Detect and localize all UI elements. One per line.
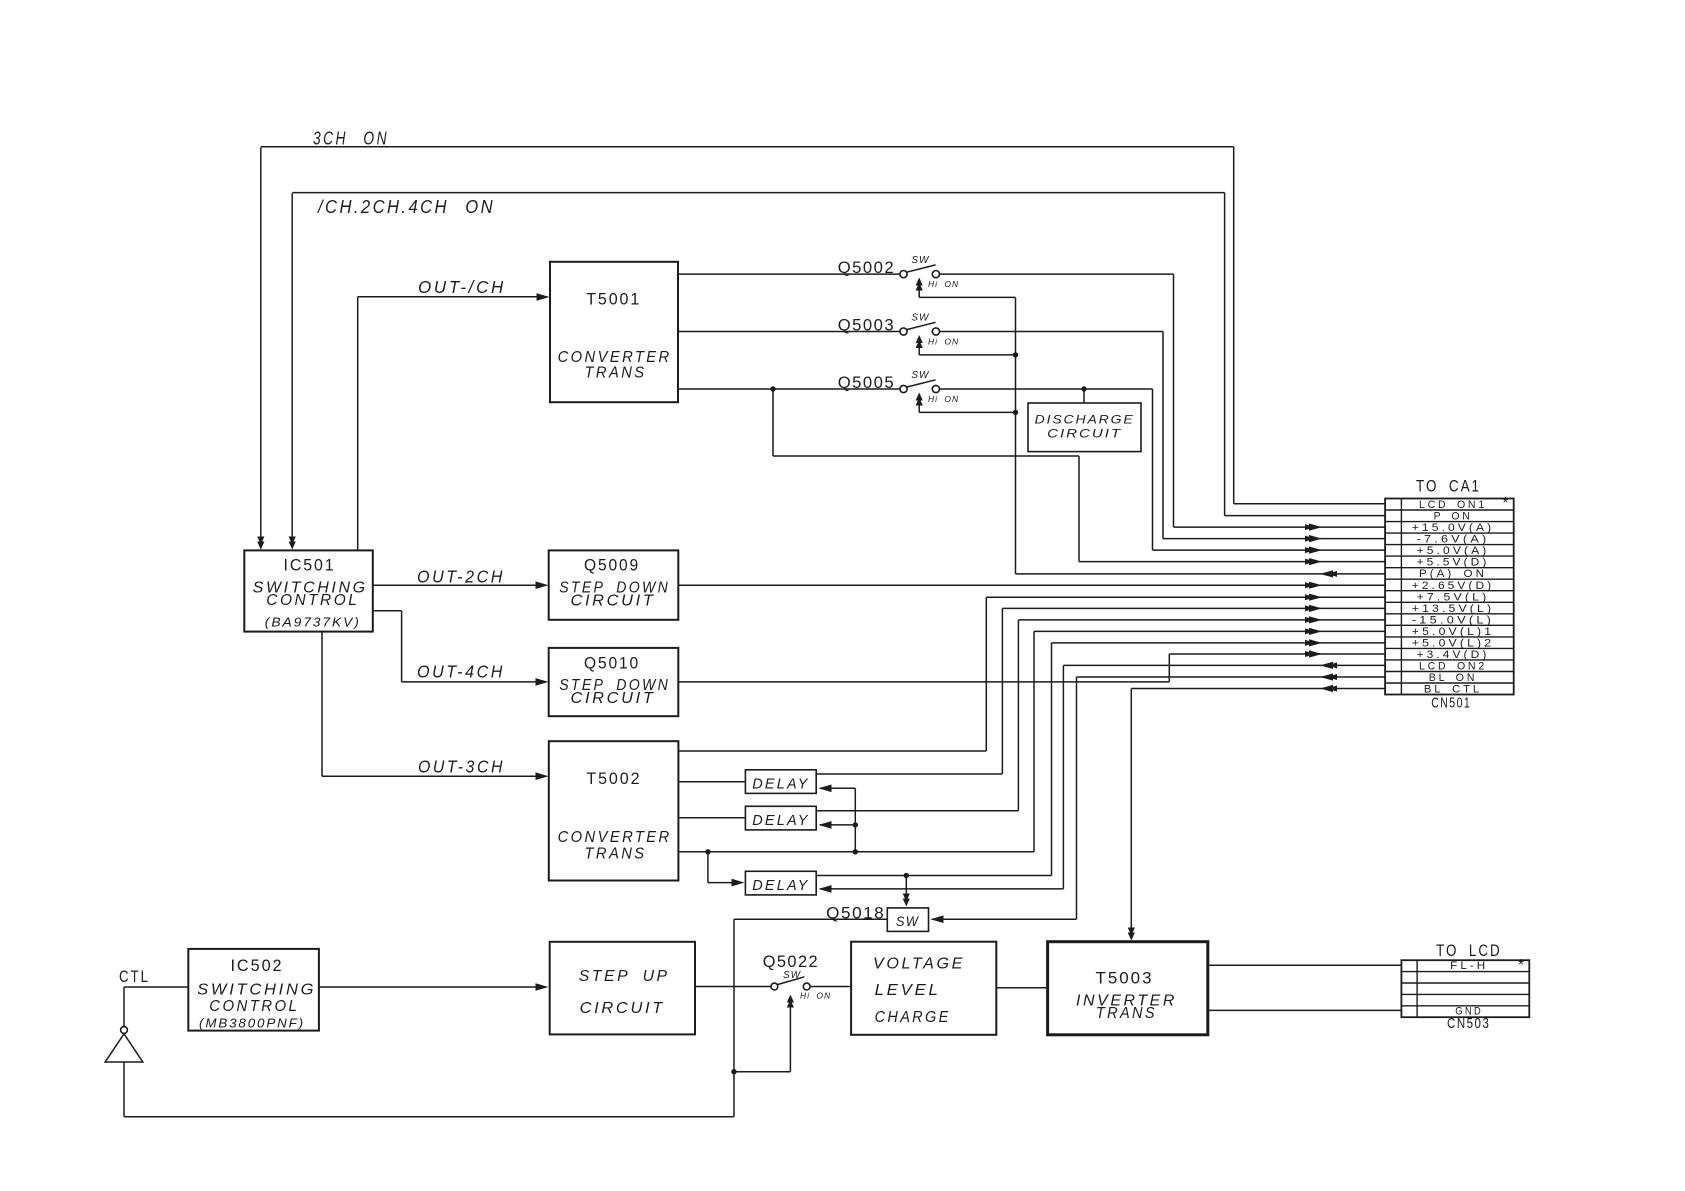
wire net OUT-3CH to T5002 bbox=[322, 775, 546, 777]
svg-text:+5.0V(A): +5.0V(A) bbox=[1417, 545, 1490, 557]
svg-text:BL CTL: BL CTL bbox=[1424, 684, 1482, 696]
block DELAY1 bbox=[745, 770, 816, 794]
svg-text:DELAY: DELAY bbox=[752, 813, 809, 829]
wire into CN501 row +3.4V(D) bbox=[1169, 653, 1386, 655]
block T5001 converter trans bbox=[550, 262, 678, 402]
wire DELAY3 out horizontal bbox=[816, 875, 1051, 877]
wire Q5009 out to CN501 +2.65V(D) bbox=[678, 584, 1386, 586]
switch Q5022 terminal left bbox=[771, 983, 778, 990]
wire net BL-CTL from CN501 bbox=[1131, 688, 1386, 690]
wire T5002 out4 horizontal bbox=[678, 851, 1034, 853]
wire vertical Q5005 to row +5.0V(A) bbox=[1152, 389, 1154, 550]
wire net 3CH-ON right vertical bbox=[1233, 147, 1235, 504]
wire net OUT-1CH horizontal to T5001 bbox=[358, 296, 547, 298]
svg-text:+15.0V(A): +15.0V(A) bbox=[1412, 522, 1494, 534]
svg-text:CN501: CN501 bbox=[1431, 695, 1471, 712]
svg-text:(MB3800PNF): (MB3800PNF) bbox=[199, 1016, 305, 1031]
wire into CN501 row +5.5V(D) bbox=[1079, 561, 1386, 563]
svg-text:P ON: P ON bbox=[1434, 511, 1473, 523]
wire T5002 out2 to DELAY1 bbox=[678, 781, 745, 783]
arrow into CN501 +3.4V(D) bbox=[1309, 650, 1322, 657]
wire T5001 out2 to switch Q5003 bbox=[678, 331, 900, 333]
wire Q5003 control horizontal bbox=[919, 354, 1015, 356]
arrow up Q5002 control bbox=[916, 278, 923, 286]
svg-text:Hi ON: Hi ON bbox=[928, 394, 959, 404]
wire CTL vertical to inverter bbox=[123, 987, 125, 1027]
switch Q5002 terminal left bbox=[900, 271, 907, 278]
svg-text:SW: SW bbox=[896, 913, 920, 929]
svg-text:+5.5V(D): +5.5V(D) bbox=[1417, 557, 1490, 569]
arrow into IC501 top (/CH.2CH.4CH ON) bbox=[289, 542, 296, 550]
svg-text:Q5003: Q5003 bbox=[838, 316, 896, 335]
svg-text:3CH ON: 3CH ON bbox=[313, 129, 389, 149]
svg-text:VOLTAGE: VOLTAGE bbox=[873, 956, 965, 973]
arrow into T5002 (OUT-3CH) bbox=[536, 772, 549, 780]
wire into CN501 row +7.5V(L) bbox=[986, 596, 1386, 598]
junction Q5005 control on P(A)ON line bbox=[1013, 410, 1018, 415]
junction DELAY2 input tap bbox=[853, 822, 858, 827]
inverter triangle bbox=[105, 1034, 143, 1062]
wire net 3CH-ON into CN501 row LCD-ON1 bbox=[1234, 503, 1386, 505]
svg-text:-7.6V(A): -7.6V(A) bbox=[1417, 534, 1490, 546]
wire feedback right vertical bbox=[733, 919, 735, 1116]
svg-text:SW: SW bbox=[911, 313, 930, 324]
block T5002 converter trans bbox=[549, 741, 679, 880]
svg-text:IC502: IC502 bbox=[231, 956, 284, 975]
svg-text:+5.0V(L)1: +5.0V(L)1 bbox=[1412, 626, 1494, 638]
block VOLTAGE LEVEL CHARGE bbox=[851, 942, 996, 1035]
wire net OUT-4CH from IC501 bbox=[373, 610, 402, 612]
arrow from CN501 BL ON bbox=[1320, 673, 1333, 680]
wire into CN501 row +13.5V(L) bbox=[1002, 607, 1386, 609]
svg-text:Q5022: Q5022 bbox=[763, 952, 819, 971]
svg-text:LEVEL: LEVEL bbox=[875, 982, 941, 999]
wire DELAY2 out horizontal bbox=[816, 810, 1018, 812]
svg-text:GND: GND bbox=[1455, 1005, 1483, 1017]
svg-text:CIRCUIT: CIRCUIT bbox=[571, 593, 656, 610]
wire DELAY1 out horizontal bbox=[816, 773, 1002, 775]
svg-text:LCD ON1: LCD ON1 bbox=[1419, 499, 1487, 511]
connector CN503 body bbox=[1401, 960, 1529, 1017]
svg-text:BL ON: BL ON bbox=[1429, 672, 1478, 684]
svg-text:T5001: T5001 bbox=[586, 290, 641, 309]
junction Q5003 control on P(A)ON line bbox=[1013, 352, 1018, 357]
wire net 3CH-ON vertical into IC501 bbox=[260, 147, 262, 541]
arrow into CN501 -15.0V(L) bbox=[1309, 616, 1322, 623]
svg-text:SWITCHING: SWITCHING bbox=[197, 982, 316, 999]
svg-text:CIRCUIT: CIRCUIT bbox=[1047, 426, 1122, 440]
svg-text:Q5002: Q5002 bbox=[838, 258, 896, 277]
wire net OUT-2CH bbox=[373, 584, 546, 586]
switch Q5003 terminal left bbox=[900, 328, 907, 335]
wire net LCD-ON2 to DELAY3 bbox=[820, 888, 1063, 890]
wire Q5022 control stem bbox=[789, 998, 791, 1072]
svg-text:TO LCD: TO LCD bbox=[1436, 941, 1502, 960]
wire DELAY1 input from bus bbox=[820, 787, 855, 789]
wire T5002 out1 vertical bbox=[985, 597, 987, 751]
wire switch Q5003 to right vertical bbox=[940, 331, 1163, 333]
wire DELAY3 feed horizontal bbox=[708, 882, 740, 884]
block DISCHARGE CIRCUIT bbox=[1028, 403, 1141, 452]
svg-text:-15.0V(L): -15.0V(L) bbox=[1412, 614, 1494, 626]
block Q5009 step down circuit bbox=[549, 550, 679, 619]
wire vertical Q5003 to row -7.6V(A) bbox=[1162, 332, 1164, 539]
wire T5003 out GND bbox=[1208, 1009, 1402, 1011]
svg-text:+5.0V(L)2: +5.0V(L)2 bbox=[1412, 637, 1494, 649]
wire branch vertical to row +5.5V(D) bbox=[1078, 456, 1080, 562]
wire into CN501 row +15.0V(A) bbox=[1174, 526, 1387, 528]
junction feedback branch bbox=[731, 1069, 736, 1074]
svg-text:Hi ON: Hi ON bbox=[928, 279, 959, 289]
arrow into CN501 +15.0V(A) bbox=[1309, 524, 1322, 531]
arrow from CN501 BL CTL bbox=[1320, 685, 1333, 692]
svg-text:OUT-3CH: OUT-3CH bbox=[418, 757, 505, 777]
svg-text:OUT-/CH: OUT-/CH bbox=[418, 277, 506, 297]
wire net 1CH-2CH-4CH-ON into CN501 row P-ON bbox=[1225, 515, 1386, 517]
connector CN501 body bbox=[1385, 499, 1514, 695]
wire switch Q5005 to right vertical bbox=[940, 388, 1153, 390]
wire switch Q5022 to VOLTAGE box bbox=[810, 986, 851, 988]
svg-text:IC501: IC501 bbox=[284, 556, 336, 575]
wire net P(A)-ON from CN501 row bbox=[1016, 573, 1387, 575]
switch Q5003 blade bbox=[907, 322, 936, 329]
wire into CN501 row +5.0V(A) bbox=[1153, 549, 1387, 551]
svg-text:CONTROL: CONTROL bbox=[266, 592, 359, 609]
block DELAY3 bbox=[745, 871, 816, 895]
svg-text:CONVERTER: CONVERTER bbox=[558, 829, 672, 846]
junction Q5018 feed tap bbox=[904, 873, 909, 878]
wire branch horizontal y=456 bbox=[773, 455, 1079, 457]
wire Q5010 out horizontal bbox=[678, 681, 1169, 683]
wire into CN501 row +5.0V(L)2 bbox=[1052, 642, 1387, 644]
switch Q5003 terminal right bbox=[932, 328, 939, 335]
switch Q5005 terminal right bbox=[932, 385, 939, 392]
svg-text:CHARGE: CHARGE bbox=[875, 1009, 951, 1026]
svg-text:/CH.2CH.4CH ON: /CH.2CH.4CH ON bbox=[316, 197, 495, 217]
svg-text:OUT-4CH: OUT-4CH bbox=[417, 662, 505, 682]
arrow into Q5018 top bbox=[903, 899, 910, 907]
svg-text:Q5010: Q5010 bbox=[584, 654, 640, 673]
switch Q5022 terminal right bbox=[803, 983, 810, 990]
block STEP UP CIRCUIT bbox=[550, 942, 695, 1035]
wire DELAY3 out vertical bbox=[1051, 643, 1053, 876]
wire net BL-ON from CN501 bbox=[1077, 676, 1387, 678]
wire STEP UP out to switch Q5022 bbox=[695, 986, 771, 988]
svg-text:TO CA1: TO CA1 bbox=[1416, 477, 1481, 496]
wire tap into DISCHARGE CIRCUIT bbox=[1083, 389, 1085, 403]
wire T5001 out1 to switch Q5002 bbox=[678, 273, 900, 275]
block Q5010 step down circuit bbox=[549, 648, 679, 716]
wire branch to Q5022 control bbox=[734, 1071, 790, 1073]
svg-text:Hi ON: Hi ON bbox=[928, 337, 959, 347]
inverter bubble bbox=[121, 1027, 128, 1034]
block T5003 inverter trans bbox=[1048, 942, 1208, 1035]
svg-text:FL-H: FL-H bbox=[1450, 960, 1488, 972]
svg-text:Q5009: Q5009 bbox=[584, 556, 640, 575]
arrow into CN501 +5.0V(L)1 bbox=[1309, 628, 1322, 635]
svg-text:SW: SW bbox=[911, 370, 930, 381]
svg-text:*: * bbox=[1518, 957, 1524, 974]
wire net BL-CTL vertical bbox=[1130, 689, 1132, 930]
wire net OUT-1CH vertical from IC501 top bbox=[357, 297, 359, 550]
wire net LCD-ON2 vertical bbox=[1062, 665, 1064, 889]
wire T5002 out3 to DELAY2 bbox=[678, 817, 745, 819]
svg-text:Q5005: Q5005 bbox=[838, 373, 896, 392]
svg-text:(BA9737KV): (BA9737KV) bbox=[265, 615, 361, 630]
wire Q5002 control horizontal bbox=[919, 296, 1015, 298]
wire into CN501 row -7.6V(A) bbox=[1163, 538, 1386, 540]
arrow into T5001 (OUT-/CH) bbox=[537, 293, 550, 301]
svg-text:CIRCUIT: CIRCUIT bbox=[571, 690, 656, 707]
wire DELAY2 out vertical bbox=[1017, 620, 1019, 811]
arrow into DELAY3 input bbox=[732, 879, 745, 887]
block IC501 switching control bbox=[244, 550, 372, 631]
arrow into CN501 -7.6V(A) bbox=[1309, 535, 1322, 542]
arrow into CN501 +5.0V(A) bbox=[1309, 547, 1322, 554]
arrow into CN501 +5.5V(D) bbox=[1309, 558, 1322, 565]
junction discharge tap bbox=[1081, 386, 1086, 391]
switch Q5005 terminal left bbox=[900, 385, 907, 392]
wire T5002 out1 horizontal bbox=[678, 750, 986, 752]
svg-text:Hi ON: Hi ON bbox=[800, 991, 831, 1001]
switch Q5005 blade bbox=[907, 380, 936, 387]
wire net 1CH-2CH-4CH-ON top horizontal bbox=[292, 192, 1224, 194]
arrow into IC501 top (3CH ON) bbox=[257, 542, 264, 550]
switch Q5022 blade bbox=[777, 977, 804, 985]
block DELAY2 bbox=[745, 806, 816, 830]
svg-text:SW: SW bbox=[911, 255, 930, 266]
wire feedback bottom horizontal bbox=[124, 1116, 734, 1118]
wire Q5010 out vertical bbox=[1168, 654, 1170, 682]
wire net P(A)-ON vertical bbox=[1015, 297, 1017, 574]
wire T5001 out3 to switch Q5005 bbox=[678, 388, 900, 390]
arrow into DELAY1 input bbox=[819, 785, 832, 793]
svg-text:DISCHARGE: DISCHARGE bbox=[1035, 412, 1135, 426]
wire net LCD-ON2 from CN501 bbox=[1063, 664, 1386, 666]
arrow up Q5022 control bbox=[787, 995, 794, 1003]
wire branch vertical at x=773 bbox=[772, 389, 774, 456]
wire DELAY bus vertical x=855 bbox=[854, 788, 856, 852]
wire DELAY1 out vertical bbox=[1001, 608, 1003, 774]
arrow into CN501 +7.5V(L) bbox=[1309, 594, 1322, 601]
wire Q5005 control stem bbox=[918, 396, 920, 413]
svg-text:P(A) ON: P(A) ON bbox=[1419, 568, 1487, 580]
arrow from CN501 LCD ON2 bbox=[1320, 662, 1333, 669]
svg-text:DELAY: DELAY bbox=[752, 777, 809, 793]
wire Q5002 control stem bbox=[918, 281, 920, 297]
svg-text:CONTROL: CONTROL bbox=[209, 998, 299, 1015]
arrow into DELAY2 input bbox=[819, 821, 832, 829]
wire net OUT-4CH vertical bbox=[401, 611, 403, 682]
svg-text:DELAY: DELAY bbox=[752, 878, 809, 894]
svg-text:*: * bbox=[1502, 495, 1508, 512]
block IC502 switching control bbox=[188, 949, 319, 1031]
svg-text:OUT-2CH: OUT-2CH bbox=[417, 567, 505, 587]
arrow into CN501 +2.65V(D) bbox=[1309, 582, 1322, 589]
arrow into CN501 +13.5V(L) bbox=[1309, 605, 1322, 612]
wire net 1CH-2CH-4CH-ON vertical into IC501 bbox=[291, 193, 293, 541]
wire VOLTAGE to T5003 bbox=[996, 987, 1047, 989]
svg-text:T5002: T5002 bbox=[586, 769, 641, 788]
arrow into CN501 +5.0V(L)2 bbox=[1309, 639, 1322, 646]
arrow into DELAY3 right input bbox=[819, 885, 832, 893]
svg-text:CONVERTER: CONVERTER bbox=[558, 349, 672, 366]
wire net BL-ON into Q5018 bbox=[932, 918, 1077, 920]
svg-text:STEP UP: STEP UP bbox=[579, 968, 670, 985]
switch Q5002 terminal right bbox=[932, 271, 939, 278]
wire DELAY2 input from bus bbox=[820, 824, 855, 826]
svg-text:+7.5V(L): +7.5V(L) bbox=[1417, 591, 1490, 603]
wire net OUT-4CH to Q5010 bbox=[402, 681, 546, 683]
block Q5018 SW bbox=[887, 908, 928, 932]
wire into CN501 row +5.0V(L)1 bbox=[1034, 630, 1386, 632]
arrow up Q5005 control bbox=[916, 393, 923, 401]
wire net OUT-3CH vertical from IC501 bbox=[321, 632, 323, 777]
arrow into STEP UP circuit bbox=[536, 983, 549, 991]
svg-text:SW: SW bbox=[783, 970, 802, 981]
wire DELAY3 feed vertical bbox=[707, 852, 709, 883]
svg-text:TRANS: TRANS bbox=[585, 846, 647, 863]
wire Q5005 control horizontal bbox=[919, 411, 1015, 413]
wire vertical Q5002 to row +15.0V(A) bbox=[1173, 274, 1175, 527]
junction DELAY1-2 bus tap bbox=[853, 849, 858, 854]
arrow into Q5018 right side bbox=[931, 915, 944, 923]
wire into CN501 row -15.0V(L) bbox=[1018, 619, 1386, 621]
wire T5003 out FL-H bbox=[1208, 964, 1402, 966]
junction DELAY3 feed tap bbox=[705, 849, 710, 854]
wire switch Q5002 to right vertical bbox=[940, 273, 1174, 275]
wire inverter input vertical bbox=[123, 1062, 125, 1117]
wire net 3CH-ON top horizontal bbox=[261, 146, 1234, 148]
svg-text:CN503: CN503 bbox=[1447, 1015, 1490, 1032]
svg-text:+2.65V(D): +2.65V(D) bbox=[1412, 580, 1494, 592]
arrow from CN501 P(A) ON bbox=[1320, 570, 1333, 577]
wire Q5018 feed vertical bbox=[905, 876, 907, 896]
wire Q5003 control stem bbox=[918, 338, 920, 355]
svg-text:CIRCUIT: CIRCUIT bbox=[580, 1000, 665, 1017]
arrow into Q5010 (OUT-4CH) bbox=[536, 678, 549, 686]
wire T5002 out4 vertical bbox=[1033, 631, 1035, 851]
svg-text:CTL: CTL bbox=[119, 967, 150, 986]
wire CTL to IC502 bbox=[124, 986, 188, 988]
svg-text:T5003: T5003 bbox=[1096, 969, 1154, 988]
wire net 1CH-2CH-4CH-ON right vertical bbox=[1224, 193, 1226, 516]
wire Q5018 left to feedback vertical bbox=[734, 918, 887, 920]
svg-text:TRANS: TRANS bbox=[1096, 1005, 1157, 1022]
wire net BL-ON vertical bbox=[1076, 677, 1078, 919]
junction T5001 out3 branch bbox=[770, 386, 775, 391]
svg-text:TRANS: TRANS bbox=[585, 365, 647, 382]
svg-text:LCD ON2: LCD ON2 bbox=[1419, 661, 1487, 673]
wire IC502 out to STEP UP bbox=[319, 986, 545, 988]
svg-text:+13.5V(L): +13.5V(L) bbox=[1412, 603, 1494, 615]
arrow up Q5003 control bbox=[916, 335, 923, 343]
switch Q5002 blade bbox=[907, 265, 936, 272]
arrow into T5003 top bbox=[1128, 933, 1135, 941]
arrow into Q5009 (OUT-2CH) bbox=[536, 581, 549, 589]
svg-text:+3.4V(D): +3.4V(D) bbox=[1417, 649, 1490, 661]
